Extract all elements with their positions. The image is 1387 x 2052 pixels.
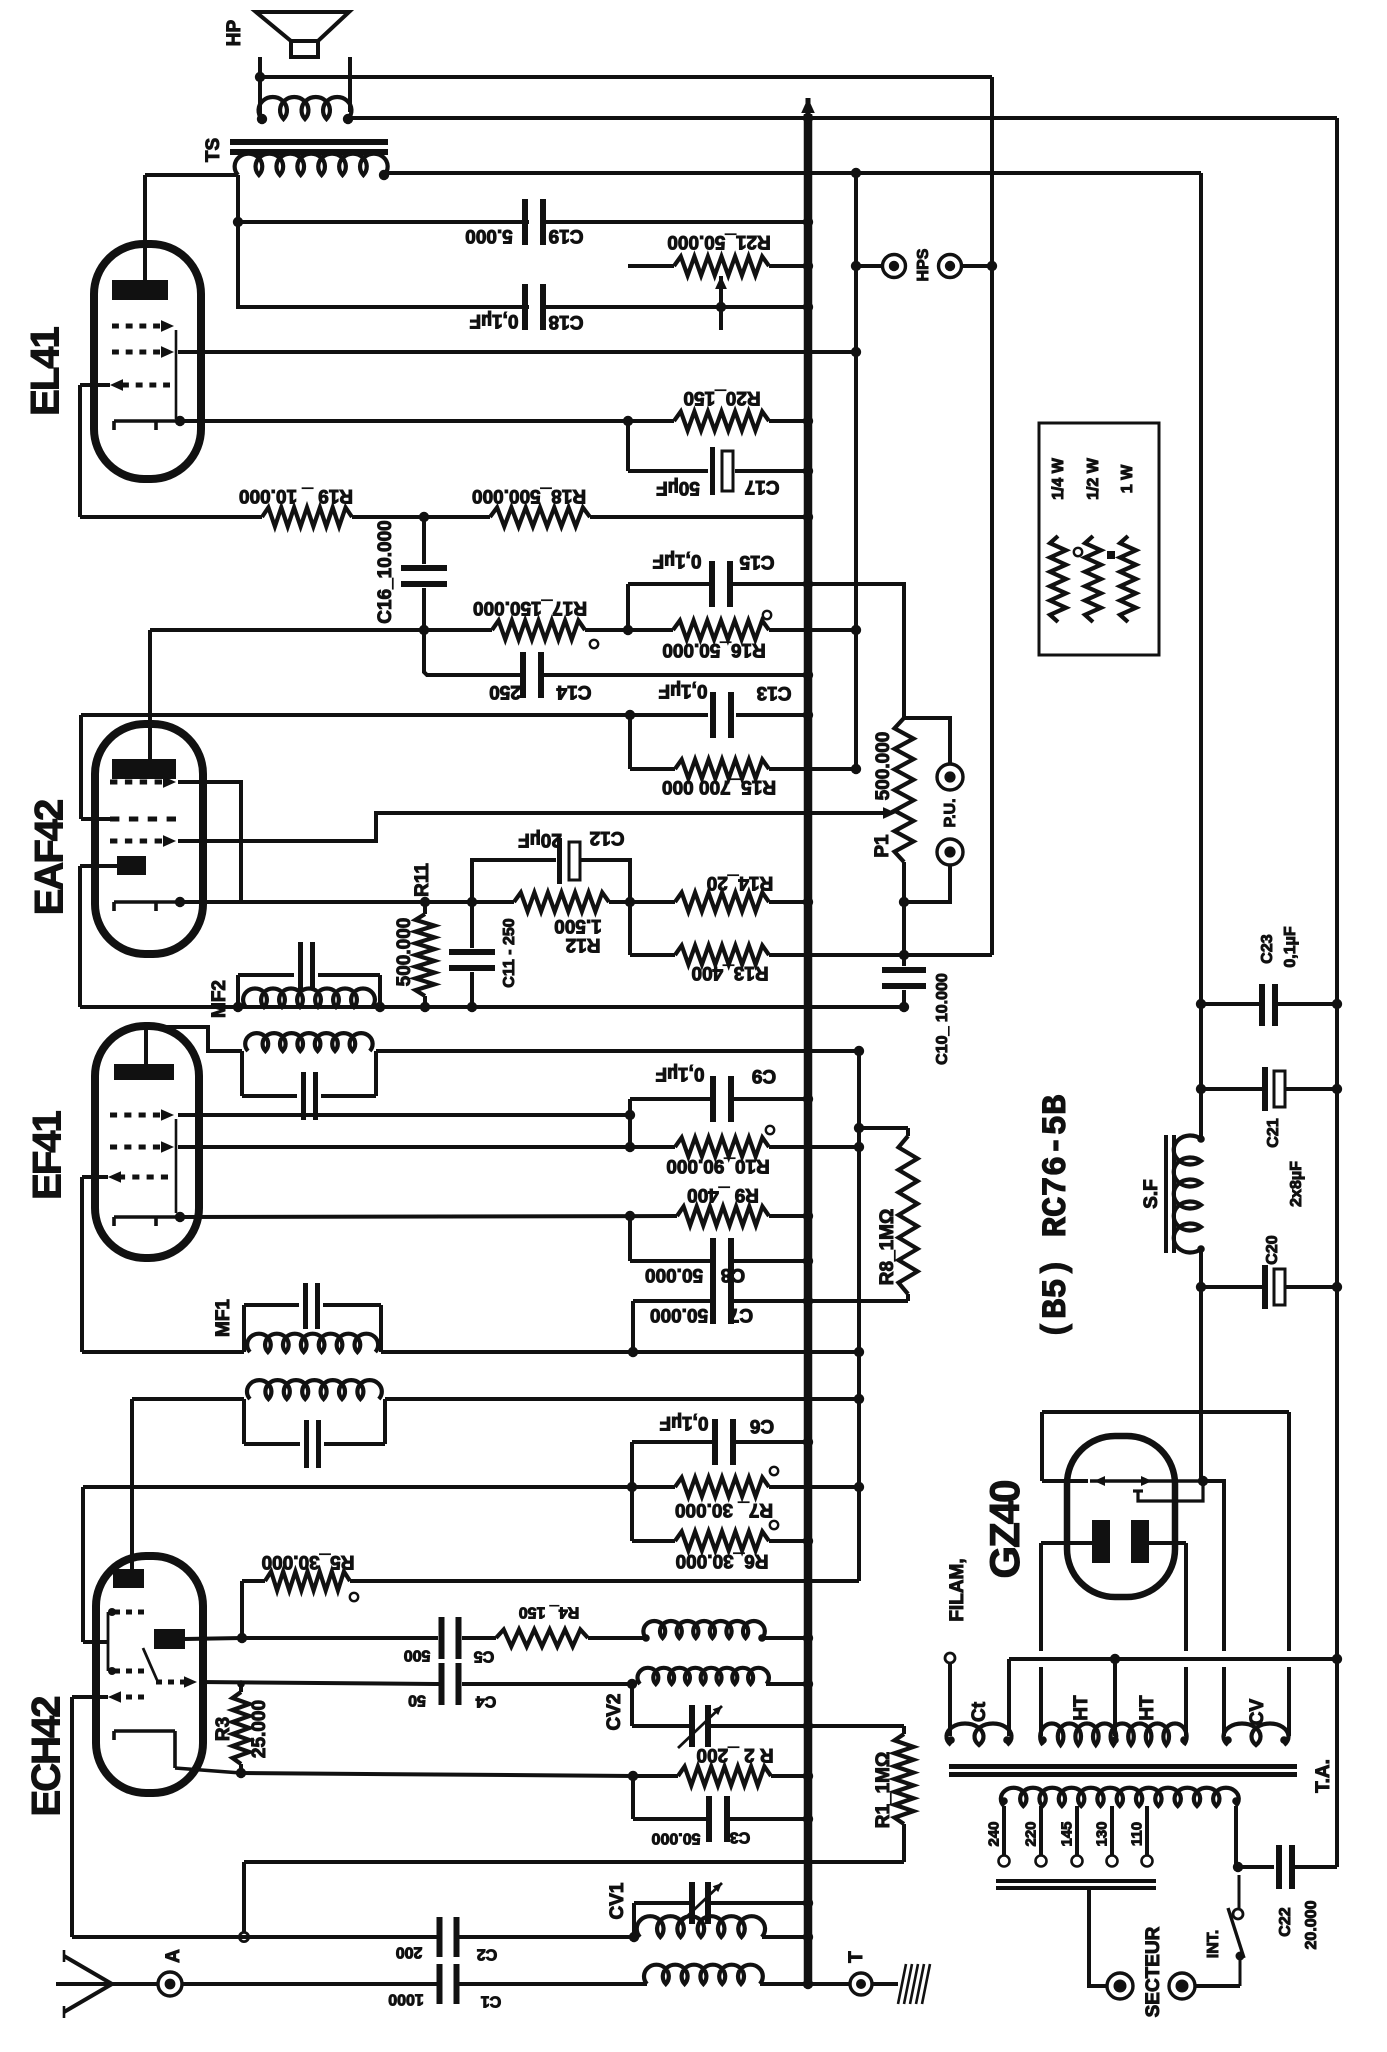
node TS/C19 junction	[233, 217, 243, 227]
ECH42 g2 row	[114, 1669, 120, 1674]
node C7 at bus	[803, 1296, 813, 1306]
node C14 at bus	[803, 670, 813, 680]
svg-text:C6: C6	[750, 1415, 774, 1436]
wire EL41 g3 down to R19	[78, 385, 82, 517]
wire R11 leads	[423, 902, 427, 914]
winding primary	[1001, 1788, 1239, 1806]
wire C15 bracket	[626, 584, 630, 630]
ECH42 g4 row	[114, 1610, 120, 1615]
svg-text:1 W: 1 W	[1119, 464, 1136, 493]
node R18 at bus	[803, 512, 813, 522]
resistor R11 500.000	[416, 914, 435, 996]
node HT right	[1180, 1736, 1188, 1744]
wire EAF42 anode lead	[148, 630, 152, 759]
EF41 grid g1 row	[118, 1175, 125, 1180]
EAF42 grid g2 row	[110, 839, 117, 844]
svg-text:C12: C12	[590, 827, 625, 848]
wire C9 line	[630, 1097, 714, 1101]
wire P1 top to P.U.1	[904, 718, 950, 765]
wire R6 leads	[632, 1539, 675, 1543]
oscillator coupling coil	[643, 1621, 764, 1638]
variable capacitor CV1	[689, 1882, 695, 1924]
wire +HT vertical (x=1201) upper	[1199, 173, 1203, 1139]
wire R13 bracket	[628, 902, 632, 955]
svg-text:HP: HP	[224, 19, 245, 46]
svg-text:C5: C5	[474, 1647, 495, 1664]
wire P1 bottom lead	[902, 862, 906, 902]
wire ECH42 triode anode lead	[185, 1638, 242, 1639]
winding CV	[1224, 1724, 1289, 1745]
svg-text:2x8µF: 2x8µF	[1288, 1161, 1305, 1207]
node screen line at bracket	[627, 1482, 637, 1492]
node R21 at bus	[803, 261, 813, 271]
wire HPS right lead	[962, 264, 992, 268]
ECH42 triode anode	[154, 1629, 185, 1649]
svg-text:50.000: 50.000	[650, 1304, 708, 1325]
wire EAF42 g2 to P.U. line	[178, 813, 884, 841]
svg-text:EL41: EL41	[23, 326, 67, 415]
wire CV2 line	[632, 1724, 694, 1728]
resistor R1 1MΩ	[902, 1726, 906, 1734]
node C10 bottom	[899, 1002, 909, 1012]
svg-text:R3: R3	[213, 1717, 234, 1741]
wire C8 line	[630, 1259, 714, 1263]
resistor R19 10.000	[262, 508, 352, 527]
wire EL41 g1 line (y=352)	[178, 350, 856, 354]
node C3 at bus	[803, 1814, 813, 1824]
node HPS right at shield line	[987, 261, 997, 271]
wire EAF42 g3 to cathode	[178, 782, 241, 902]
capacitor C4 50	[439, 1663, 445, 1705]
wire R21 right lead	[769, 264, 808, 268]
svg-text:R17_150.000: R17_150.000	[473, 597, 587, 618]
resistor R10 90.000	[675, 1138, 769, 1157]
EL41 grid g3 row	[122, 383, 129, 388]
wire R7 leads	[632, 1485, 675, 1489]
legend resistor 1/2W	[1085, 536, 1101, 622]
resistor R4 150	[496, 1630, 588, 1647]
svg-text:R12: R12	[566, 934, 601, 955]
wire osc coil to bus	[762, 1636, 808, 1640]
wire R20 leads	[628, 419, 674, 423]
EF41 cathode	[114, 1215, 180, 1219]
capacitor C15 0,1uF	[709, 561, 715, 607]
wire antenna lead	[112, 1982, 157, 1986]
wire C23 line	[1201, 1002, 1259, 1006]
svg-text:0,1µF: 0,1µF	[656, 1063, 705, 1084]
svg-text:T: T	[846, 1951, 867, 1963]
wire CV2 to R1 top	[808, 1724, 904, 1728]
node MF1u bracket	[628, 1347, 638, 1357]
svg-text:C15: C15	[739, 551, 774, 572]
svg-text:0,1µF: 0,1µF	[470, 310, 519, 331]
node R6 at bus	[803, 1536, 813, 1546]
transformer TS primary coil	[235, 154, 388, 175]
svg-text:50: 50	[408, 1691, 426, 1708]
speaker voice coil	[259, 97, 352, 119]
svg-text:INT.: INT.	[1205, 1930, 1222, 1958]
node CV1 tank junction	[629, 1932, 639, 1942]
wire EAF42 anode feed (y=630)	[150, 628, 492, 632]
wire primary right end down	[1234, 1806, 1238, 1867]
wire box to filament	[1042, 1479, 1088, 1483]
node R16 at screen rail	[851, 625, 861, 635]
svg-text:1.500: 1.500	[554, 915, 602, 936]
svg-text:R8_1MΩ: R8_1MΩ	[877, 1209, 898, 1285]
capacitor C10 10.000	[902, 955, 906, 966]
wire C7 line	[633, 1299, 714, 1303]
wire C5-R4 link	[462, 1636, 496, 1640]
svg-text:R18_500.000: R18_500.000	[472, 485, 586, 506]
svg-text:C22: C22	[1277, 1907, 1294, 1936]
legend box	[1039, 423, 1159, 655]
wire box right down	[1287, 1412, 1291, 1651]
node R20 left	[623, 416, 633, 426]
wire C6 line	[632, 1440, 716, 1444]
svg-text:500.000: 500.000	[394, 918, 415, 987]
svg-text:HPS: HPS	[915, 248, 932, 281]
winding HT	[1040, 1724, 1186, 1745]
oscillator grid coil	[638, 1668, 769, 1684]
wire EAF42 g1 exit	[81, 817, 110, 821]
node MF1u at AVC rail	[854, 1347, 864, 1357]
wire R21 wiper	[719, 307, 723, 330]
svg-text:R1_1MΩ: R1_1MΩ	[873, 1752, 894, 1828]
voltage selector bar	[996, 1879, 1156, 1883]
svg-text:C14: C14	[556, 681, 591, 702]
svg-text:R21_50.000: R21_50.000	[667, 231, 771, 252]
choke S.F core	[1164, 1135, 1168, 1253]
wire speaker frame right	[348, 57, 352, 112]
node C20 right	[1332, 1282, 1342, 1292]
capacitor C19	[522, 199, 528, 245]
node C21 right	[1332, 1084, 1342, 1094]
node CV right	[1280, 1736, 1288, 1744]
node HT left	[1039, 1736, 1047, 1744]
tube EF41 envelope	[95, 1026, 199, 1258]
svg-text:500.000: 500.000	[873, 732, 894, 801]
EF41 anode plate	[114, 1064, 174, 1080]
svg-text:0,1µF: 0,1µF	[1282, 926, 1299, 967]
svg-text:C18: C18	[549, 311, 584, 332]
wire filament to CV left	[1205, 1481, 1224, 1651]
wire R20/C17 bracket	[626, 421, 630, 471]
capacitor C11 250	[470, 902, 474, 948]
GZ40 anode right	[1131, 1520, 1149, 1563]
terminal FILAM.	[945, 1653, 955, 1663]
wire R16 right lead	[769, 628, 856, 632]
node C8 at bus	[803, 1256, 813, 1266]
node filament +HT junction	[1198, 1476, 1208, 1486]
node C19 at bus	[803, 217, 813, 227]
resistor R7 30.000	[675, 1478, 769, 1497]
wire bus arrow stem	[806, 98, 811, 120]
wire CV right below hop	[1287, 1667, 1291, 1736]
wire C15 to P1 top	[808, 584, 904, 718]
wire speaker frame left	[258, 57, 262, 119]
wire ECH42 g1 down	[70, 1697, 74, 1937]
capacitor C9 0,1uF	[710, 1076, 716, 1122]
node S.F bottom	[1197, 1245, 1205, 1253]
wire EF41 g1 down to MF1	[80, 1177, 84, 1352]
svg-text:130: 130	[1093, 1821, 1110, 1846]
wire Ct right up	[1007, 1659, 1011, 1736]
wire R19-R18 link	[352, 515, 490, 519]
node R3 top	[237, 1680, 245, 1688]
svg-text:R5_30.000: R5_30.000	[262, 1551, 355, 1572]
wire grid return drop (x=244)	[242, 1862, 246, 1933]
wire chassis line (y=1659)	[1009, 1657, 1337, 1661]
wire HT centre tap	[1113, 1659, 1117, 1736]
wire P1 bottom to R13 line	[902, 902, 906, 955]
node Ct right	[1003, 1736, 1011, 1744]
svg-text:1000: 1000	[388, 1990, 424, 2007]
svg-text:R7_ 30.000: R7_ 30.000	[675, 1499, 773, 1520]
wire R5 right lead	[350, 1579, 859, 1583]
capacitor C14 250	[520, 652, 526, 698]
wire R21 left lead	[628, 264, 674, 268]
svg-text:500: 500	[404, 1646, 431, 1663]
node EF41 g2 at bracket	[625, 1110, 635, 1120]
wire PU shield bottom	[990, 953, 994, 955]
wire antenna tank line	[72, 1935, 442, 1939]
wire GZ40 filament box top	[1042, 1410, 1289, 1414]
tap 110	[1145, 1806, 1149, 1855]
node C18 at bus	[803, 302, 813, 312]
resistor R5 30.000	[265, 1572, 350, 1591]
node R9 at bus	[803, 1211, 813, 1221]
svg-text:20.000: 20.000	[1303, 1900, 1320, 1949]
wire EL41 cathode line (y=421)	[180, 419, 628, 423]
svg-text:C13: C13	[757, 682, 792, 703]
wire MF1 lower to ECH42 anode	[130, 1399, 134, 1569]
svg-text:S.F: S.F	[1141, 1179, 1162, 1209]
node C6 at bus	[803, 1437, 813, 1447]
wire HT left below hop	[1039, 1667, 1043, 1736]
terminal A	[158, 1972, 182, 1996]
svg-text:50.000: 50.000	[645, 1264, 703, 1285]
svg-text:CV: CV	[1247, 1698, 1268, 1725]
tap 240	[1002, 1806, 1006, 1855]
node C23 right	[1332, 999, 1342, 1009]
capacitor C16 10.000	[422, 517, 426, 564]
capacitor C12 20uF (electrolytic)	[472, 860, 556, 902]
EL41 grid g1 row	[112, 350, 119, 355]
wire C13/R15 bracket	[628, 715, 632, 769]
wire C15 line	[628, 582, 713, 586]
capacitor C20 8uF (electrolytic)	[1262, 1265, 1268, 1309]
svg-text:R16_50.000: R16_50.000	[662, 639, 766, 660]
wire CV left below hop	[1222, 1667, 1226, 1736]
wire EAF42 diode exit	[80, 864, 117, 868]
wire EAF42 diode down	[78, 866, 82, 1007]
node osc grid coil at bus	[803, 1679, 813, 1689]
resistor R17 150.000	[492, 621, 585, 640]
variable capacitor CV2	[689, 1705, 695, 1747]
wire A to C1	[183, 1982, 442, 1986]
node primary right	[1232, 1797, 1240, 1805]
wire R10 right lead	[769, 1145, 859, 1149]
tube EAF42 envelope	[95, 724, 203, 954]
speaker HP cone	[256, 12, 349, 41]
svg-text:C17: C17	[745, 476, 780, 497]
svg-text:C9: C9	[752, 1065, 776, 1086]
capacitor C2 200	[437, 1917, 443, 1957]
tube ECH42 envelope	[96, 1556, 203, 1793]
EAF42 anode plate	[112, 759, 176, 779]
node ground bus bottom	[803, 1979, 813, 1989]
wire P.U.2 lead	[906, 865, 950, 902]
node ant coil at bus	[803, 1932, 813, 1942]
resistor R2 200	[678, 1767, 771, 1786]
wire C6/R7/R6 bracket	[630, 1442, 634, 1541]
svg-text:P1: P1	[872, 834, 893, 858]
wire ECH42 screen up	[81, 1487, 85, 1642]
svg-text:5.000: 5.000	[465, 225, 513, 246]
svg-text:R13_400: R13_400	[691, 962, 768, 983]
wire C22 left lead	[1238, 1865, 1274, 1869]
capacitor C22 20.000	[1276, 1845, 1282, 1889]
wire HT left to anode	[1041, 1541, 1092, 1545]
svg-text:240: 240	[985, 1821, 1002, 1846]
svg-text:R14_20: R14_20	[707, 872, 774, 893]
wire MF2 lower to AVC (y=1051)	[376, 1049, 859, 1053]
wire P1 wiper arrow	[883, 807, 896, 819]
svg-text:Ct: Ct	[969, 1701, 990, 1722]
ground bus (vertical)	[804, 114, 813, 1984]
node cathode/R11 junction	[420, 897, 430, 907]
wire C22 right lead	[1295, 1865, 1337, 1869]
svg-text:C20: C20	[1264, 1235, 1281, 1264]
resistor R18 500.000	[490, 508, 590, 527]
svg-text:C3: C3	[730, 1828, 751, 1845]
wire R13 leads	[630, 953, 675, 957]
potentiometer R21 50.000	[674, 257, 769, 276]
wire coil to T	[760, 1982, 849, 1986]
EAF42 grid g3 row	[110, 780, 117, 785]
node MF2u left	[233, 1002, 243, 1012]
node R9 junction left	[625, 1211, 635, 1221]
legend resistor 1/4W	[1050, 536, 1066, 622]
capacitor C1 1000	[437, 1964, 443, 2004]
node R5 at triode anode line	[237, 1633, 247, 1643]
wire ECH42 screen line (y=1487)	[83, 1485, 632, 1489]
node R15 at screen rail	[851, 764, 861, 774]
wire R5 corner	[240, 1581, 244, 1638]
wire screen rail vertical (x=856)	[854, 173, 858, 769]
wire EAF42 g1 up	[79, 715, 83, 819]
capacitor C17 50uF (electrolytic)	[710, 447, 715, 495]
node voice coil left	[257, 114, 267, 124]
svg-text:20µF: 20µF	[518, 829, 562, 850]
wire C19 line	[238, 220, 529, 224]
antenna coupling coil	[644, 1965, 763, 1984]
node g4 line at bracket	[625, 1142, 635, 1152]
capacitor C7 50.000	[710, 1278, 716, 1324]
resistor R6 30.000	[675, 1532, 769, 1551]
GZ40 filament	[1090, 1479, 1205, 1482]
ECH42 triode grid row	[156, 1680, 162, 1685]
node MF1l at AVC rail	[854, 1394, 864, 1404]
wire EL41 anode lead	[143, 175, 147, 280]
svg-text:250: 250	[489, 681, 521, 702]
node P.U. line at bus	[804, 809, 812, 817]
node C23 left	[1196, 999, 1206, 1009]
svg-text:HT: HT	[1071, 1695, 1092, 1721]
wire PU shield vertical (x=992)	[990, 77, 994, 953]
node osc coil left	[642, 1634, 650, 1642]
wire MF2 line (y=1007)	[80, 1005, 904, 1009]
wire ECH42 triode grid line	[199, 1682, 436, 1684]
wire R4 to coil	[588, 1636, 646, 1640]
svg-text:C19: C19	[549, 225, 584, 246]
wire EF41 cathode line	[180, 1216, 677, 1217]
node R8 at AVC rail	[854, 1123, 864, 1133]
svg-text:R9 _400: R9 _400	[687, 1184, 759, 1205]
node TS coil right	[379, 170, 389, 180]
wire EAF42 grid line (y=715)	[81, 713, 708, 717]
wire C20 line	[1201, 1285, 1262, 1289]
wire osc grid coil to bus	[766, 1682, 808, 1686]
svg-text:220: 220	[1022, 1821, 1039, 1846]
svg-text:R20_150: R20_150	[683, 387, 760, 408]
terminal HPS left	[883, 255, 906, 278]
EF41 grid g2 row	[110, 1113, 117, 1118]
svg-text:HT: HT	[1137, 1695, 1158, 1721]
svg-text:R 2 _200: R 2 _200	[696, 1744, 773, 1765]
node speaker frame	[255, 72, 265, 82]
wire ant coil to bus	[762, 1935, 808, 1939]
tube EL41 envelope	[94, 244, 201, 479]
wire C14 line	[424, 630, 524, 675]
wire CV2 bracket	[630, 1684, 634, 1726]
EAF42 grid g1 row	[110, 817, 119, 822]
wire R2 line	[241, 1773, 633, 1776]
node MF2u right	[375, 1002, 385, 1012]
terminal P.U. upper	[937, 764, 963, 790]
node chassis at right bus	[1332, 1654, 1342, 1664]
svg-text:1/4 W: 1/4 W	[1050, 457, 1067, 500]
wire C9 bracket	[628, 1099, 632, 1147]
resistor R8 1MΩ	[906, 1128, 910, 1136]
node C15 at bus	[803, 579, 813, 589]
wire C8 bracket	[628, 1216, 632, 1261]
node cathode/C11-C12 junction	[467, 897, 477, 907]
resistor R3 25.000	[239, 1684, 243, 1692]
wire FILAM to Ct	[948, 1663, 952, 1736]
tap 220	[1039, 1806, 1043, 1855]
capacitor C18	[522, 284, 528, 330]
svg-text:C7: C7	[729, 1304, 753, 1325]
terminal P.U. lower	[937, 839, 963, 865]
wire MF1 upper right lead	[381, 1350, 859, 1354]
svg-text:C16_10.000: C16_10.000	[375, 520, 396, 624]
wire MF1 lower left lead	[132, 1397, 244, 1401]
node EAF42 cathode	[175, 897, 185, 907]
node C22 junction	[1233, 1862, 1243, 1872]
wire C7 bracket	[631, 1301, 635, 1352]
node C9 at bus	[803, 1094, 813, 1104]
node grid return at bus	[804, 1858, 811, 1865]
node HT centre tap at chassis	[1110, 1654, 1120, 1664]
wire TS left vertical	[236, 175, 240, 309]
node tank tap	[239, 1932, 248, 1941]
wire EF41 g4/R10 line	[178, 1145, 675, 1149]
node voice coil right	[343, 114, 353, 124]
capacitor C6 0,1uF	[712, 1419, 718, 1465]
transformer T.A. core	[949, 1764, 1297, 1769]
wire EL41 g2 internal tie	[175, 330, 178, 419]
